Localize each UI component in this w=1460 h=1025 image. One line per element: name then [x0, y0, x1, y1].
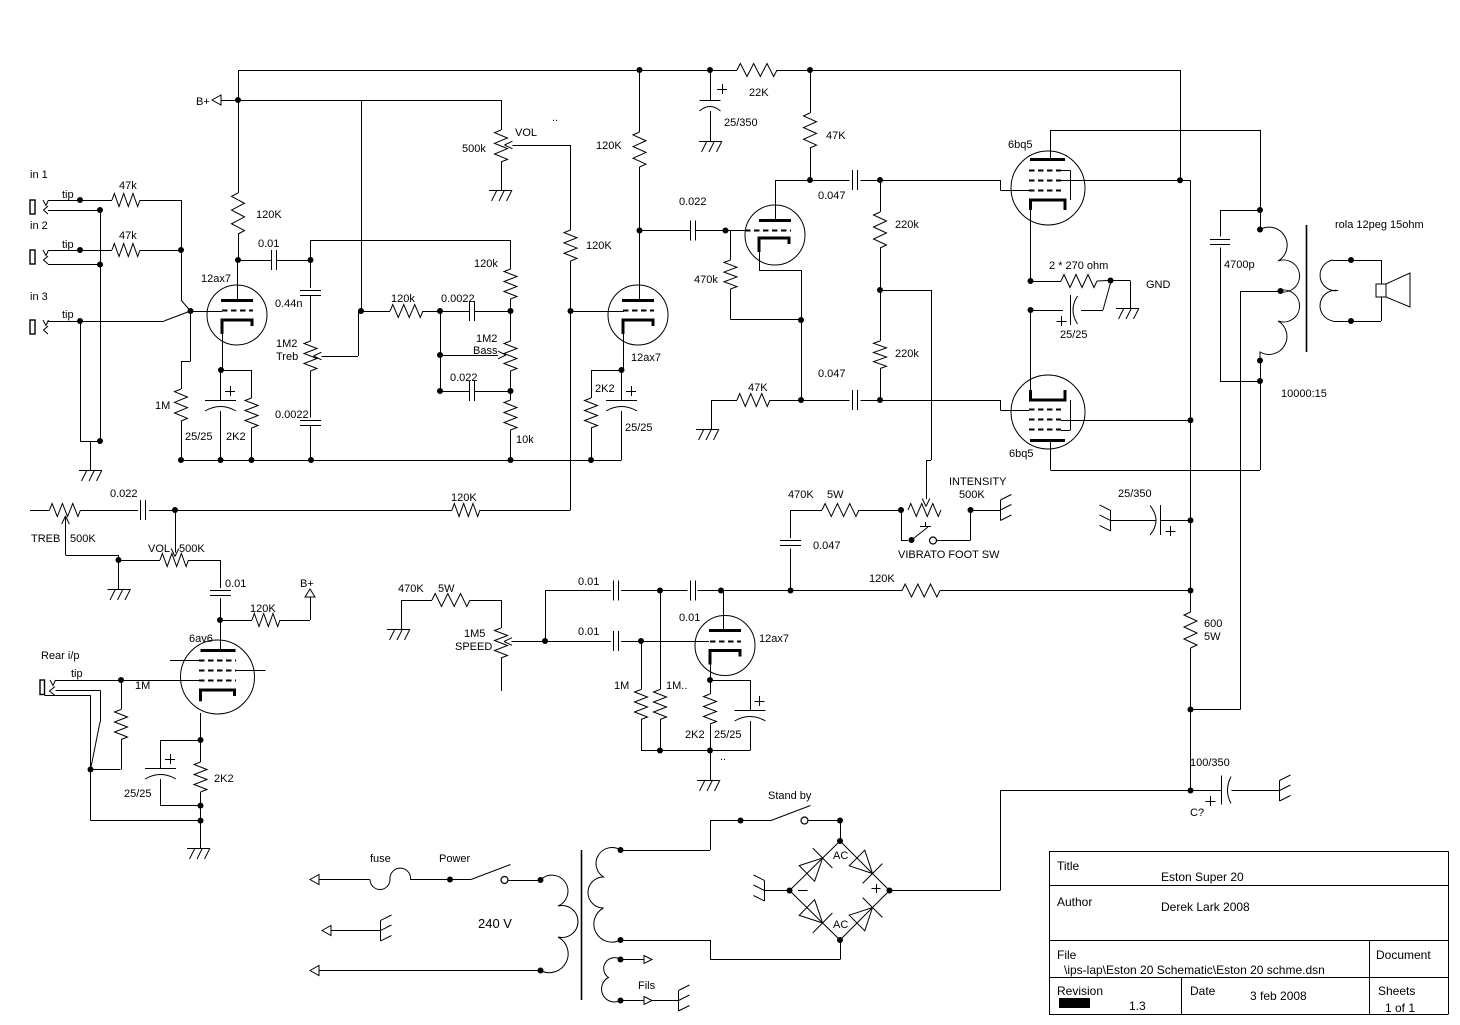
wire V5 screen: [1061, 180, 1180, 182]
capacitor 4700p: [1220, 210, 1260, 212]
stub 6av6 diode plate right: [236, 670, 266, 672]
resistor 470K 5W (intensity feed): [859, 510, 901, 512]
capacitor 25/25 cathode bypass (V1): [220, 370, 222, 400]
junction 6av6 cathode: [198, 737, 204, 743]
junction tremolo feedback node: [788, 588, 794, 594]
svg-text:6bq5: 6bq5: [1008, 139, 1032, 151]
junction fil bottom: [618, 998, 624, 1004]
pot 1M2 Bass: [504, 341, 517, 371]
svg-text:2K2: 2K2: [214, 773, 234, 785]
svg-text:AC: AC: [833, 919, 848, 931]
svg-text:25/25: 25/25: [124, 788, 152, 800]
svg-text:C?: C?: [1190, 807, 1204, 819]
junction splitter plate node: [807, 177, 813, 183]
wire in3 tip: [49, 321, 81, 323]
svg-text:120k: 120k: [474, 258, 498, 270]
tube V1 12ax7 input triode: [207, 285, 267, 345]
svg-text:220k: 220k: [895, 348, 919, 360]
ground input jacks: [79, 470, 101, 472]
wire 47k-2 to junction: [140, 250, 181, 252]
capacitor 0.047 upper: [810, 180, 850, 182]
tube V6 6bq5 lower: [1011, 375, 1085, 449]
capacitor 25/25 (V2): [621, 370, 623, 400]
wire rail ground: [710, 751, 712, 781]
junction bridge plus: [887, 888, 893, 894]
junction secondary top: [1348, 257, 1354, 263]
svg-text:4700p: 4700p: [1224, 259, 1255, 271]
junction cathode bus 2: [1028, 307, 1034, 313]
wire in2 tip: [49, 250, 81, 252]
junction HT top: [618, 847, 624, 853]
svg-text:2K2: 2K2: [595, 383, 615, 395]
wire vol2 wiper from mix node: [175, 510, 177, 553]
resistor 470k splitter grid leak: [726, 230, 731, 232]
svg-text:0.01: 0.01: [225, 578, 246, 590]
junction raw B+ node: [1188, 707, 1194, 713]
svg-text:500k: 500k: [462, 143, 486, 155]
svg-text:Derek Lark 2008: Derek Lark 2008: [1161, 900, 1250, 914]
capacitor 0.01 tremolo A: [545, 590, 611, 592]
tube V7 12ax7 tremolo osc: [695, 616, 755, 676]
wire splitter cathode: [759, 252, 761, 270]
resistor 470K 5W (speed feed): [470, 600, 501, 602]
junction V1 grid node: [188, 308, 194, 314]
resistor 10k: [510, 391, 512, 400]
wire treb pot to cap: [81, 510, 139, 512]
resistor 220k lower: [880, 290, 882, 341]
tube V2 12ax7 second stage: [608, 285, 668, 345]
wire top rail drop to screen node: [1180, 70, 1182, 180]
junction 10k rail: [508, 457, 514, 463]
junction in1 tip: [77, 197, 83, 203]
stub V6 suppressor tie: [1061, 430, 1070, 432]
junction OPT center tap: [1278, 288, 1284, 294]
stub 6av6 diode plate left: [170, 660, 199, 662]
junction V7 grid node: [638, 638, 644, 644]
chassis ground mains earth: [380, 921, 382, 942]
junction intensity left: [898, 507, 904, 513]
junction sleeve bus top: [97, 207, 103, 213]
svg-text:Revision: Revision: [1057, 984, 1103, 998]
wire bridge minus to chassis: [765, 890, 790, 892]
svg-text:Title: Title: [1057, 859, 1080, 873]
junction bass top node: [437, 308, 443, 314]
junction B+ node: [235, 97, 241, 103]
wire wiper col to 0.022: [440, 355, 442, 391]
wire HT top to standby: [621, 850, 711, 852]
svg-text:1.3: 1.3: [1129, 999, 1146, 1013]
junction bridge minus: [787, 888, 793, 894]
tube V4 12ax7 phase splitter: [745, 205, 805, 265]
wire plate node to 0.047 node: [721, 590, 791, 592]
wire V7 grid row: [641, 641, 709, 643]
junction input ground node: [97, 438, 103, 444]
svg-text:0.01: 0.01: [578, 576, 599, 588]
ground tremolo: [697, 780, 719, 782]
resistor 1M tremolo B: [660, 591, 662, 690]
wire V2 grid: [571, 311, 625, 313]
diode D3 (minus to AC bottom): [799, 900, 822, 923]
resistor 47k (in2): [112, 244, 140, 257]
svg-text:File: File: [1057, 948, 1077, 962]
junction V1 plate node: [235, 257, 241, 263]
junction 1M to cathode rail: [178, 457, 184, 463]
junction rear sleeve node: [88, 767, 94, 773]
power arrow mains E: [322, 926, 331, 936]
svg-text:47K: 47K: [748, 382, 768, 394]
svg-text:25/350: 25/350: [1118, 488, 1152, 500]
resistor 120k tone mid: [390, 305, 423, 318]
junction screen node top: [1177, 177, 1183, 183]
junction tremolo B+ node: [1188, 588, 1194, 594]
wire upper grid to V5: [880, 180, 1001, 182]
junction standby out: [837, 818, 843, 824]
capacitor 0.022 treb-mix: [140, 500, 142, 520]
svg-text:25/25: 25/25: [625, 422, 653, 434]
svg-text:12ax7: 12ax7: [201, 273, 231, 285]
junction splitter bias node: [798, 397, 804, 403]
junction 2K2 rail: [249, 457, 255, 463]
wire fuse to switch: [411, 879, 451, 881]
capacitor 0.01 tremolo C: [660, 590, 688, 592]
switch Power: [450, 879, 471, 881]
svg-text:SPEED: SPEED: [455, 641, 492, 653]
svg-text:10000:15: 10000:15: [1281, 388, 1327, 400]
svg-text:\ips-lap\Eston 20 Schematic\Es: \ips-lap\Eston 20 Schematic\Eston 20 sch…: [1064, 963, 1325, 977]
svg-text:3 feb 2008: 3 feb 2008: [1250, 989, 1307, 1003]
wire V6 plate lead: [1050, 441, 1052, 471]
junction speed wiper node: [542, 638, 548, 644]
resistor 120K (6av6 plate feed): [252, 614, 280, 627]
wire in1 tip to 47k: [80, 200, 112, 202]
svg-text:0.022: 0.022: [679, 196, 707, 208]
junction 2K2 rail (V2): [588, 457, 594, 463]
wire vol2 out: [189, 560, 221, 562]
svg-text:INTENSITY: INTENSITY: [949, 476, 1007, 488]
pot VOL 500k first: [501, 100, 503, 130]
wire splitter plate to 0.047: [775, 180, 810, 182]
junction top rail V2: [637, 67, 643, 73]
stub V5 suppressor tie: [1061, 170, 1070, 172]
ground vol pot: [489, 190, 511, 192]
junction mains primary bottom: [538, 968, 544, 974]
wire treb node ground: [118, 560, 120, 589]
resistor 600 5W: [1190, 591, 1192, 613]
wire 6av6 cathode lead: [200, 713, 202, 740]
wire treb wiper: [322, 356, 359, 358]
wire wiper down: [570, 145, 572, 230]
node B+ top rail wire: [238, 70, 737, 72]
svg-text:12ax7: 12ax7: [759, 633, 789, 645]
svg-text:0.01: 0.01: [258, 238, 279, 250]
svg-text:AC: AC: [833, 850, 848, 862]
junction cathode R/C node: [1108, 278, 1114, 284]
resistor 22K dropping: [737, 64, 777, 77]
junction reservoir node: [1188, 788, 1194, 794]
ground output cathodes: [1116, 308, 1138, 310]
resistor 220k upper: [880, 180, 882, 212]
junction in2 sleeve: [97, 262, 103, 268]
svg-text:47k: 47k: [119, 180, 137, 192]
wire B+ riser: [238, 70, 240, 100]
chassis ground filament: [678, 991, 680, 1012]
junction 0.022 left: [437, 388, 443, 394]
mix row 120K resistor: [452, 504, 480, 517]
svg-text:1M: 1M: [614, 680, 629, 692]
svg-text:12ax7: 12ax7: [631, 352, 661, 364]
transformer T1 output primary: [1260, 130, 1262, 210]
cathode 6av6: [201, 690, 235, 701]
junction V2 grid node: [568, 308, 574, 314]
transformer T2 core: [581, 850, 583, 1000]
fuse: [370, 868, 411, 889]
junction V2 plate / 0.022 tap: [637, 228, 643, 234]
svg-text:47k: 47k: [119, 230, 137, 242]
svg-text:VOL: VOL: [515, 127, 537, 139]
junction secondary bottom: [1348, 318, 1354, 324]
resistor 2K2 (6av6): [200, 740, 202, 762]
capacitor 0.0022 treb-bottom: [310, 371, 312, 418]
diode D1 (minus to AC top): [799, 858, 822, 881]
wire V6 screen: [1061, 420, 1191, 422]
resistor 120K plate (V2): [639, 70, 641, 132]
wire cathode to 2K2: [221, 370, 252, 372]
capacitor 0.01 (6av6 grid): [210, 590, 231, 592]
svg-text:500K: 500K: [179, 543, 205, 555]
resistor 47K bias: [711, 400, 737, 402]
capacitor 0.047 lower: [801, 400, 850, 402]
wire grid bus to V1 grid node: [181, 250, 183, 300]
wire B+ to tone feed corner: [238, 100, 361, 102]
wire 47k to grid bus: [140, 200, 181, 202]
wire V5 plate to OPT: [1051, 130, 1261, 132]
junction in2 tip: [77, 247, 83, 253]
capacitor 0.44n treble: [310, 260, 312, 288]
svg-text:1 of 1: 1 of 1: [1385, 1001, 1415, 1015]
capacitor 25/25 output cathodes: [1031, 310, 1064, 312]
svg-text:tip: tip: [62, 189, 74, 201]
svg-text:in 1: in 1: [30, 169, 48, 181]
wire treb wiper down: [65, 516, 67, 555]
wire V5 cathode lead: [1030, 210, 1032, 281]
junction power switch pivot: [447, 877, 453, 883]
svg-text:..: ..: [720, 751, 726, 763]
svg-text:in 3: in 3: [30, 291, 48, 303]
svg-text:fuse: fuse: [370, 853, 391, 865]
svg-text:470K: 470K: [788, 489, 814, 501]
diode D2 (AC top to plus): [849, 850, 872, 873]
resistor 2K2 (V2): [585, 398, 598, 428]
junction screen node bottom: [1188, 417, 1194, 423]
wire sleeve bus vertical: [100, 210, 102, 441]
svg-text:470k: 470k: [694, 274, 718, 286]
capacitor 0.0022 tone: [440, 311, 470, 313]
wire V2 cathode: [623, 334, 625, 370]
transformer T2 mains primary 240 V: [541, 875, 578, 972]
resistor 120k tone top: [504, 269, 517, 299]
resistor 2K2 cathode (V1): [245, 398, 258, 428]
wire to vol2 pot: [119, 560, 161, 562]
resistor 1M (rear input): [121, 680, 123, 710]
ground 25/350: [699, 141, 721, 143]
junction 2K2/cap node: [198, 803, 204, 809]
capacitor 0.022 bass: [440, 391, 470, 393]
svg-text:220k: 220k: [895, 219, 919, 231]
junction V7 cathode rail: [707, 748, 713, 754]
svg-text:120K: 120K: [451, 492, 477, 504]
wire to 120K B+ feed: [220, 620, 252, 622]
svg-text:6bq5: 6bq5: [1009, 448, 1033, 460]
pot 1M2 Treb: [304, 341, 317, 371]
wire tone top link: [310, 240, 312, 260]
junction V7 plate node: [718, 588, 724, 594]
svg-text:TREB: TREB: [31, 533, 60, 545]
diode D4 (AC bottom to plus): [849, 908, 872, 931]
ground 47K bias: [711, 400, 713, 429]
wire rear grid: [121, 680, 199, 682]
junction rear tip: [118, 677, 124, 683]
svg-text:Document: Document: [1376, 948, 1431, 962]
wire in1 sleeve: [48, 210, 100, 212]
svg-text:1M5: 1M5: [464, 628, 485, 640]
resistor 47K (splitter plate): [810, 70, 812, 113]
chassis ground bridge minus: [764, 881, 766, 902]
wire V6 plate to OPT: [1051, 470, 1261, 472]
svg-text:25/25: 25/25: [185, 431, 213, 443]
junction grid bus: [178, 247, 184, 253]
svg-text:Fils: Fils: [638, 980, 656, 992]
wire splitter grid: [726, 230, 746, 232]
junction V1 cathode: [218, 367, 224, 373]
capacitor 0.047 tremolo out: [790, 510, 792, 538]
junction tremolo inject node: [877, 287, 883, 293]
svg-text:500K: 500K: [70, 533, 96, 545]
wire in1 tip: [49, 200, 81, 202]
power arrow mains N: [310, 966, 319, 976]
wire intensity to chassis: [971, 510, 1001, 512]
junction treb wiper node: [358, 308, 364, 314]
pot 1M5 SPEED: [512, 641, 546, 643]
svg-text:2K2: 2K2: [226, 431, 246, 443]
wire in3 shunt down: [80, 321, 82, 441]
capacitor 25/350 B+ filter: [1110, 510, 1112, 531]
resistor 120K vol-grid: [564, 230, 577, 261]
junction B+ filter node: [1188, 517, 1194, 523]
wire to input ground: [90, 441, 92, 470]
svg-text:1M..: 1M..: [666, 680, 687, 692]
junction intensity right: [968, 507, 974, 513]
transformer T1 core: [1306, 225, 1308, 352]
wire vertical x361 down to 120k tone row: [361, 100, 363, 311]
transformer T2 HT secondary: [588, 848, 621, 943]
junction 4700p bottom node: [1257, 378, 1263, 384]
svg-text:0.01: 0.01: [578, 626, 599, 638]
wire V1 cathode lead: [222, 334, 224, 370]
junction splitter cathode node: [798, 317, 804, 323]
svg-text:100/350: 100/350: [1190, 757, 1230, 769]
junction bridge AC top: [837, 838, 843, 844]
chassis ground reservoir: [1279, 781, 1281, 802]
svg-text:10k: 10k: [516, 434, 534, 446]
ground treb node: [108, 589, 130, 591]
wire to 600 ohm: [1190, 520, 1192, 590]
chassis ground intensity: [1000, 500, 1002, 521]
wire in3 tip to grid node: [80, 321, 164, 323]
svg-text:5W: 5W: [438, 583, 455, 595]
wire rear sleeve 1: [56, 690, 101, 692]
wire mix row left: [149, 510, 452, 512]
svg-text:Date: Date: [1190, 984, 1216, 998]
resistor 2 x 270 ohm cathode: [1031, 281, 1062, 283]
svg-text:0.022: 0.022: [110, 488, 138, 500]
wire fil top arrow: [621, 959, 645, 961]
svg-text:0.0022: 0.0022: [275, 409, 309, 421]
wire B+ arrow to junction: [221, 100, 238, 102]
junction V2 cathode: [619, 367, 625, 373]
junction 0.0022 rail: [308, 457, 314, 463]
tube V5 6bq5 upper: [1011, 151, 1085, 225]
wire V7 plate lead: [723, 591, 725, 631]
svg-text:120k: 120k: [391, 293, 415, 305]
junction standby pivot: [738, 818, 744, 824]
junction screen cap node: [707, 67, 713, 73]
svg-text:1M: 1M: [135, 680, 150, 692]
wire raw B+ down: [1190, 710, 1192, 791]
svg-text:25/25: 25/25: [1060, 329, 1088, 341]
wire screen rail mid: [1190, 420, 1192, 520]
svg-text:120K: 120K: [586, 240, 612, 252]
svg-text:Eston Super 20: Eston Super 20: [1161, 870, 1244, 884]
switch VIBRATO FOOT SW: [901, 510, 903, 540]
wire in2 sleeve: [48, 264, 100, 266]
svg-text:B+: B+: [300, 578, 314, 590]
svg-text:tip: tip: [71, 668, 83, 680]
resistor 1M tremolo A: [641, 641, 643, 690]
junction lower grid node: [877, 397, 883, 403]
resistor 120K tremolo B+: [902, 584, 940, 597]
svg-text:120K: 120K: [869, 573, 895, 585]
power arrow mains L: [310, 875, 319, 885]
junction 10k top: [508, 388, 514, 394]
wire rear sleeve 2: [45, 695, 91, 697]
wire tremolo inject: [880, 290, 931, 292]
pot VOL 500K second: [160, 554, 189, 567]
transformer T2 filament winding: [602, 958, 621, 1002]
svg-text:Rear i/p: Rear i/p: [41, 650, 80, 662]
junction tone input node: [308, 257, 314, 263]
svg-text:0.047: 0.047: [813, 540, 841, 552]
wire in2 tip to 47k: [80, 250, 112, 252]
resistor 47k (in1): [112, 194, 140, 207]
junction OPT primary bottom: [1257, 358, 1263, 364]
wire center tap B+: [1241, 291, 1281, 293]
svg-text:22K: 22K: [749, 87, 769, 99]
junction mains primary top: [538, 877, 544, 883]
svg-text:0.047: 0.047: [818, 368, 846, 380]
svg-text:in 2: in 2: [30, 220, 48, 232]
svg-text:25/350: 25/350: [724, 117, 758, 129]
junction trem node A: [657, 588, 663, 594]
wire grid node down to mix row: [570, 311, 572, 510]
svg-text:GND: GND: [1146, 279, 1171, 291]
svg-text:500K: 500K: [959, 489, 985, 501]
junction fil top: [618, 957, 624, 963]
junction cathode bus 1: [1028, 278, 1034, 284]
tube V3 6av6: [181, 640, 255, 714]
junction in3 tip: [77, 318, 83, 324]
svg-text:Stand by: Stand by: [768, 790, 812, 802]
svg-text:120K: 120K: [256, 209, 282, 221]
